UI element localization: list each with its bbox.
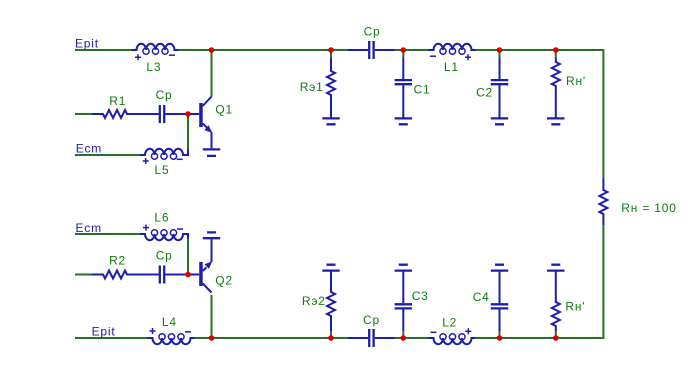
capacitor C1 [395,58,412,118]
wire top rail L3 to Cp [179,49,348,51]
svg-text:L6: L6 [154,211,169,225]
wire C1 stub [402,50,404,58]
inductor L2 [429,328,476,344]
capacitor C3 [395,272,412,331]
transistor Q1 [188,97,212,149]
ground (Re2, inverted) [322,265,339,271]
wire top rail L1 to right corner [476,49,604,51]
svg-text:Ecm: Ecm [76,142,102,156]
ground (Q1 emitter) [203,149,220,156]
resistor R1 [92,110,140,118]
capacitor Cp (R2 row, series) [139,266,188,284]
svg-text:Rэ2: Rэ2 [302,294,326,308]
svg-text:Cp: Cp [156,248,173,262]
wire Epit bottom-left stub [75,337,148,339]
wire Rh-prime bottom stub [555,331,557,338]
svg-text:L4: L4 [162,315,177,329]
wire C2 stub [499,50,501,58]
wire C3 stub [402,331,404,338]
node Q1 base [185,111,191,117]
node Q2 base [185,272,191,278]
svg-text:Rн = 100: Rн = 100 [621,201,676,215]
svg-text:Epit: Epit [92,325,116,339]
wire bottom rail Cp to L2 [395,337,429,339]
node bottom rail / C4 [497,335,503,341]
wire Q1 collector to top rail [211,50,213,97]
inductor L3 [132,44,179,60]
node bottom rail / Rh-prime bottom [553,335,559,341]
resistor Rh-prime bottom [552,272,560,332]
wire bottom rail L4 to Cp [195,337,348,339]
wire right rail upper [602,50,605,178]
capacitor C2 [491,58,508,118]
capacitor C4 [491,272,508,331]
svg-text:Q2: Q2 [215,274,233,288]
node bottom rail / Q2 collector [209,335,215,341]
svg-text:L1: L1 [444,60,459,74]
wire right rail lower [555,225,603,338]
ground (C1) [395,118,412,124]
resistor R2 [92,271,140,279]
resistor Re1 [327,58,335,118]
inductor L4 [148,328,195,344]
resistor Rh-prime top [552,58,560,118]
capacitor Cp (top rail, series) [348,41,395,59]
svg-text:Q1: Q1 [215,103,233,117]
ground (C3, inverted) [395,265,412,271]
svg-text:L2: L2 [442,315,457,329]
wire Epit top-left stub [75,49,132,51]
svg-text:Cp: Cp [364,24,381,38]
svg-text:C4: C4 [473,290,490,304]
svg-text:Epit: Epit [75,37,99,51]
wire Re2 stub [330,331,332,338]
ground (Rh-prime top) [547,118,564,124]
svg-text:Cp: Cp [156,88,173,102]
svg-text:C2: C2 [476,85,493,99]
transistor Q2 [188,239,212,292]
wire Re1 stub [330,50,332,58]
ground (C2) [491,118,508,124]
ground (Re1) [322,118,339,124]
capacitor Cp (R1 row, series) [139,105,188,123]
inductor L5 [140,149,188,164]
ground (Rh-prime bottom, inverted) [547,265,564,271]
svg-text:C1: C1 [414,83,431,97]
wire C4 stub [499,331,501,338]
svg-text:Rн': Rн' [566,74,586,88]
node top rail / Re1 [328,47,334,53]
wire L5 corner to Q1 base node [187,114,189,150]
wire bottom rail L2 to right corner [476,337,557,339]
wire R1 row left stub [75,113,92,115]
wire Ecm top stub [75,154,140,156]
node top rail / C1 [401,47,407,53]
node top rail / C2 [497,47,503,53]
svg-text:Rн': Rн' [565,299,585,313]
wire R2 row left stub [75,274,92,276]
svg-text:Ecm: Ecm [76,221,102,235]
node bottom rail / Re2 [328,335,334,341]
wire L6 corner to Q2 base node [187,239,189,275]
ground (C4, inverted) [491,265,508,271]
svg-text:R2: R2 [109,254,126,268]
wire Q2 collector to bottom rail [211,295,213,338]
resistor Rh load [599,178,607,225]
svg-text:L5: L5 [155,163,170,177]
wire top rail Cp to L1 [395,49,429,51]
node bottom rail / C3 [401,335,407,341]
svg-text:Rэ1: Rэ1 [300,80,324,94]
node top rail / Q1 collector [209,47,215,53]
ground (Q2 emitter, inverted) [203,232,220,238]
svg-text:Cp: Cp [363,313,380,327]
svg-text:R1: R1 [109,94,126,108]
node top rail / Rh-prime [553,47,559,53]
inductor L1 [429,44,476,60]
svg-text:L3: L3 [146,60,161,74]
capacitor Cp (bottom rail, series) [348,329,395,347]
inductor L6 [140,225,188,241]
svg-text:C3: C3 [412,289,429,303]
wire Rh-prime top stub [555,50,557,58]
wire Ecm bottom stub [75,233,140,235]
resistor Re2 [327,272,335,332]
